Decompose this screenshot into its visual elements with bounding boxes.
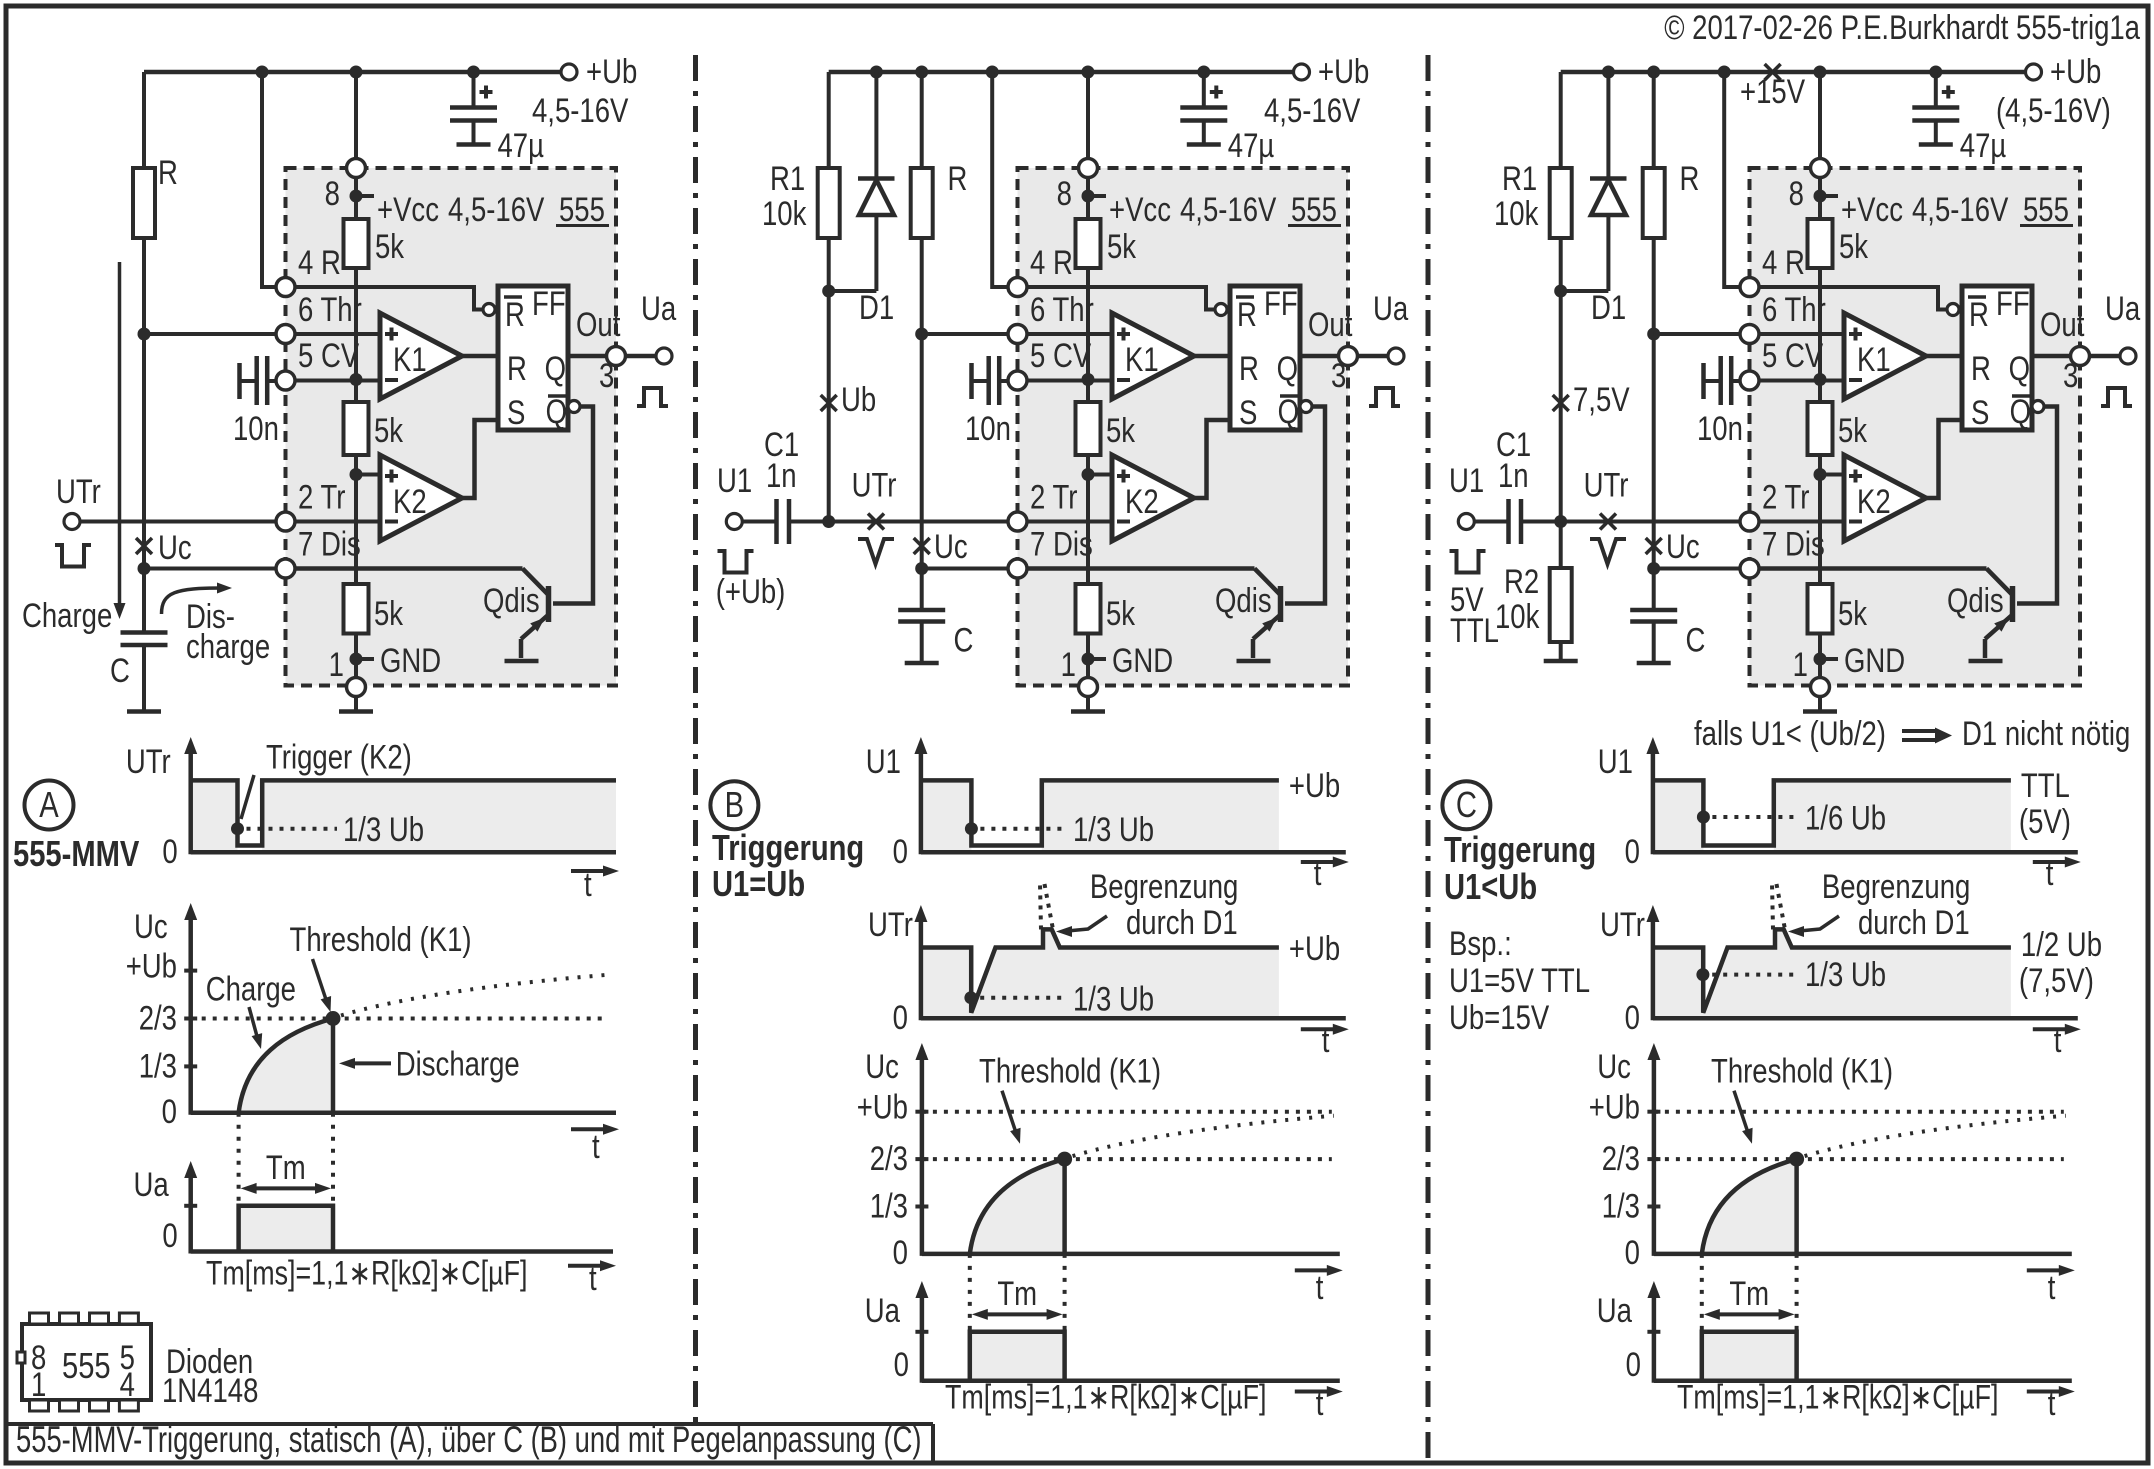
svg-text:GND: GND [1844, 641, 1905, 679]
svg-text:R: R [1680, 159, 1700, 197]
svg-text:8: 8 [1057, 174, 1072, 212]
svg-text:555: 555 [1291, 190, 1337, 228]
svg-text:Uc: Uc [134, 907, 168, 945]
svg-text:Ua: Ua [641, 289, 677, 327]
svg-text:5k: 5k [375, 227, 405, 265]
svg-text:S: S [507, 393, 525, 431]
svg-text:R1: R1 [1502, 159, 1537, 197]
svg-text:3: 3 [599, 356, 614, 394]
svg-text:1/6 Ub: 1/6 Ub [1805, 799, 1886, 837]
svg-text:Begrenzung: Begrenzung [1822, 867, 1970, 905]
svg-text:K2: K2 [393, 482, 427, 520]
svg-text:D1: D1 [859, 288, 894, 326]
svg-text:4,5-16V: 4,5-16V [1912, 190, 2009, 228]
svg-text:8: 8 [1789, 174, 1804, 212]
svg-text:UTr: UTr [126, 742, 171, 780]
svg-text:5 CV: 5 CV [298, 336, 360, 374]
svg-text:0: 0 [162, 1092, 177, 1130]
svg-text:t: t [2048, 1384, 2056, 1422]
svg-text:+Vcc: +Vcc [1841, 190, 1903, 228]
svg-text:1/3: 1/3 [139, 1047, 177, 1085]
svg-text:4,5-16V: 4,5-16V [448, 190, 545, 228]
svg-text:10n: 10n [233, 409, 279, 447]
svg-text:Threshold (K1): Threshold (K1) [1711, 1052, 1893, 1090]
svg-text:2 Tr: 2 Tr [1762, 478, 1809, 516]
svg-text:4 R: 4 R [1762, 243, 1805, 281]
svg-text:K1: K1 [1125, 340, 1159, 378]
svg-text:UTr: UTr [1600, 905, 1645, 943]
svg-text:U1<Ub: U1<Ub [1444, 866, 1537, 907]
svg-text:Threshold (K1): Threshold (K1) [979, 1052, 1161, 1090]
svg-text:R: R [507, 349, 527, 387]
svg-text:U1: U1 [717, 461, 752, 499]
svg-text:0: 0 [162, 1216, 177, 1254]
svg-text:1n: 1n [1498, 456, 1529, 494]
svg-text:10k: 10k [762, 194, 807, 232]
svg-text:Ua: Ua [865, 1291, 901, 1329]
svg-text:7,5V: 7,5V [1573, 380, 1630, 418]
svg-text:0: 0 [893, 1233, 908, 1271]
svg-text:K1: K1 [1857, 340, 1891, 378]
svg-text:1: 1 [1061, 645, 1076, 683]
svg-text:t: t [1314, 854, 1322, 892]
svg-text:47µ: 47µ [498, 126, 545, 164]
svg-text:t: t [2054, 1021, 2062, 1059]
svg-text:555-MMV-Triggerung, statisch (: 555-MMV-Triggerung, statisch (A), über C… [16, 1419, 921, 1460]
svg-text:R: R [158, 153, 178, 191]
svg-text:R: R [1239, 349, 1259, 387]
svg-text:6 Thr: 6 Thr [1030, 290, 1094, 328]
svg-text:7 Dis: 7 Dis [1762, 525, 1825, 563]
svg-text:(+Ub): (+Ub) [716, 572, 786, 610]
svg-text:1N4148: 1N4148 [162, 1371, 258, 1409]
svg-text:C: C [1686, 621, 1706, 659]
svg-text:+Vcc: +Vcc [1109, 190, 1171, 228]
svg-text:Begrenzung: Begrenzung [1090, 867, 1238, 905]
svg-text:3: 3 [2063, 356, 2078, 394]
svg-text:Out: Out [2040, 305, 2085, 343]
svg-text:0: 0 [162, 832, 177, 870]
svg-text:Trigger (K2): Trigger (K2) [266, 738, 412, 776]
svg-text:Tm[ms]=1,1∗R[kΩ]∗C[µF]: Tm[ms]=1,1∗R[kΩ]∗C[µF] [1677, 1378, 1998, 1416]
svg-text:© 2017-02-26 P.E.Burkhardt 555: © 2017-02-26 P.E.Burkhardt 555-trig1a [1664, 8, 2140, 46]
svg-text:8: 8 [325, 174, 340, 212]
svg-text:1/3 Ub: 1/3 Ub [343, 810, 424, 848]
svg-text:+Vcc: +Vcc [377, 190, 439, 228]
svg-text:R: R [1237, 295, 1257, 333]
svg-text:4,5-16V: 4,5-16V [1264, 91, 1361, 129]
svg-text:5k: 5k [374, 411, 404, 449]
svg-text:1n: 1n [766, 456, 797, 494]
svg-text:(5V): (5V) [2019, 802, 2071, 840]
svg-text:t: t [1316, 1384, 1324, 1422]
svg-text:FF: FF [1264, 284, 1298, 322]
svg-text:S: S [1239, 393, 1257, 431]
svg-text:3: 3 [1331, 356, 1346, 394]
svg-text:Threshold (K1): Threshold (K1) [290, 920, 472, 958]
svg-text:Out: Out [1308, 305, 1353, 343]
svg-text:2/3: 2/3 [1602, 1139, 1640, 1177]
svg-text:FF: FF [532, 284, 566, 322]
svg-text:555: 555 [559, 190, 605, 228]
svg-text:1: 1 [1793, 645, 1808, 683]
svg-text:Uc: Uc [158, 528, 192, 566]
svg-text:0: 0 [1625, 1233, 1640, 1271]
svg-text:U1=Ub: U1=Ub [712, 863, 805, 904]
svg-text:Uc: Uc [1597, 1047, 1631, 1085]
svg-text:D1 nicht nötig: D1 nicht nötig [1962, 714, 2130, 752]
svg-text:Ub: Ub [841, 380, 876, 418]
svg-text:1/3 Ub: 1/3 Ub [1073, 810, 1154, 848]
svg-text:UTr: UTr [852, 466, 897, 504]
svg-text:Tm: Tm [1729, 1274, 1769, 1312]
svg-text:1: 1 [329, 645, 344, 683]
svg-text:0: 0 [1625, 998, 1640, 1036]
svg-text:Tm: Tm [997, 1274, 1037, 1312]
svg-text:Triggerung: Triggerung [712, 827, 864, 868]
svg-text:1/3: 1/3 [1602, 1187, 1640, 1225]
svg-text:Ua: Ua [1373, 289, 1409, 327]
svg-text:Qdis: Qdis [1947, 581, 2004, 619]
svg-text:charge: charge [186, 627, 270, 665]
svg-text:t: t [1316, 1268, 1324, 1306]
svg-text:UTr: UTr [56, 472, 101, 510]
svg-text:0: 0 [1625, 832, 1640, 870]
svg-text:A: A [39, 784, 59, 825]
svg-text:Qdis: Qdis [1215, 581, 1272, 619]
svg-text:Q: Q [2009, 349, 2030, 387]
svg-text:t: t [589, 1259, 597, 1297]
svg-text:durch D1: durch D1 [1126, 903, 1238, 941]
svg-text:555: 555 [62, 1345, 111, 1386]
svg-text:GND: GND [380, 641, 441, 679]
svg-text:2/3: 2/3 [870, 1139, 908, 1177]
svg-text:C: C [954, 621, 974, 659]
svg-text:C: C [1456, 784, 1477, 825]
svg-text:47µ: 47µ [1960, 126, 2007, 164]
svg-text:K1: K1 [393, 340, 427, 378]
svg-text:Out: Out [576, 305, 621, 343]
svg-text:0: 0 [893, 832, 908, 870]
svg-text:7 Dis: 7 Dis [1030, 525, 1093, 563]
svg-text:+Ub: +Ub [2050, 52, 2101, 90]
svg-text:5k: 5k [1107, 227, 1137, 265]
svg-text:1/3 Ub: 1/3 Ub [1805, 955, 1886, 993]
svg-text:Q: Q [2010, 392, 2031, 430]
svg-text:Q: Q [1277, 349, 1298, 387]
svg-text:K2: K2 [1857, 482, 1891, 520]
svg-text:falls U1< (Ub/2): falls U1< (Ub/2) [1694, 714, 1886, 752]
svg-text:GND: GND [1112, 641, 1173, 679]
svg-text:FF: FF [1996, 284, 2030, 322]
svg-text:R: R [505, 295, 525, 333]
svg-text:Q: Q [1278, 392, 1299, 430]
svg-text:(7,5V): (7,5V) [2019, 961, 2094, 999]
svg-text:6 Thr: 6 Thr [1762, 290, 1826, 328]
svg-text:R: R [1971, 349, 1991, 387]
svg-text:+Ub: +Ub [126, 947, 177, 985]
svg-text:S: S [1971, 393, 1989, 431]
svg-text:2 Tr: 2 Tr [1030, 478, 1077, 516]
svg-text:Ua: Ua [2105, 289, 2141, 327]
svg-text:5k: 5k [1106, 411, 1136, 449]
svg-text:5k: 5k [1106, 594, 1136, 632]
svg-text:Triggerung: Triggerung [1444, 829, 1596, 870]
svg-text:0: 0 [894, 1345, 909, 1383]
svg-text:R2: R2 [1504, 562, 1539, 600]
svg-text:UTr: UTr [1584, 466, 1629, 504]
svg-text:Uc: Uc [865, 1047, 899, 1085]
svg-text:+Ub: +Ub [1589, 1088, 1640, 1126]
svg-text:Tm: Tm [266, 1148, 306, 1186]
svg-text:1/3: 1/3 [870, 1187, 908, 1225]
svg-text:5k: 5k [1838, 411, 1868, 449]
svg-text:t: t [584, 865, 592, 903]
svg-text:0: 0 [1626, 1345, 1641, 1383]
svg-text:TTL: TTL [2021, 766, 2070, 804]
svg-text:6 Thr: 6 Thr [298, 290, 362, 328]
svg-text:Q: Q [546, 392, 567, 430]
svg-text:+Ub: +Ub [586, 52, 637, 90]
svg-text:Ub=15V: Ub=15V [1449, 998, 1550, 1036]
svg-text:Ua: Ua [134, 1165, 170, 1203]
svg-text:2 Tr: 2 Tr [298, 478, 345, 516]
svg-text:B: B [725, 784, 744, 825]
svg-text:Charge: Charge [22, 596, 112, 634]
svg-text:4 R: 4 R [1030, 243, 1073, 281]
svg-text:Bsp.:: Bsp.: [1449, 924, 1512, 962]
svg-text:(4,5-16V): (4,5-16V) [1996, 91, 2111, 129]
svg-text:4 R: 4 R [298, 243, 341, 281]
svg-text:4,5-16V: 4,5-16V [532, 91, 629, 129]
svg-text:+Ub: +Ub [1289, 766, 1340, 804]
svg-text:10k: 10k [1495, 597, 1540, 635]
svg-text:4: 4 [120, 1365, 135, 1403]
svg-text:+Ub: +Ub [1289, 929, 1340, 967]
svg-text:7 Dis: 7 Dis [298, 525, 361, 563]
svg-text:0: 0 [893, 998, 908, 1036]
svg-text:durch D1: durch D1 [1858, 903, 1970, 941]
svg-text:5k: 5k [1838, 594, 1868, 632]
svg-text:5 CV: 5 CV [1762, 336, 1824, 374]
svg-text:U1=5V TTL: U1=5V TTL [1449, 961, 1590, 999]
svg-text:+Ub: +Ub [857, 1088, 908, 1126]
svg-text:5k: 5k [374, 594, 404, 632]
svg-text:Uc: Uc [934, 527, 968, 565]
svg-text:UTr: UTr [868, 905, 913, 943]
svg-text:R1: R1 [770, 159, 805, 197]
svg-text:1/3 Ub: 1/3 Ub [1073, 980, 1154, 1018]
svg-text:R: R [1969, 295, 1989, 333]
svg-text:t: t [592, 1127, 600, 1165]
svg-text:Tm[ms]=1,1∗R[kΩ]∗C[µF]: Tm[ms]=1,1∗R[kΩ]∗C[µF] [206, 1255, 527, 1293]
svg-text:U1: U1 [866, 742, 901, 780]
svg-text:2/3: 2/3 [139, 999, 177, 1037]
svg-text:10k: 10k [1494, 194, 1539, 232]
svg-text:U1: U1 [1598, 742, 1633, 780]
svg-text:Tm[ms]=1,1∗R[kΩ]∗C[µF]: Tm[ms]=1,1∗R[kΩ]∗C[µF] [945, 1378, 1266, 1416]
svg-text:10n: 10n [965, 409, 1011, 447]
svg-text:R: R [948, 159, 968, 197]
svg-text:5k: 5k [1839, 227, 1869, 265]
svg-text:47µ: 47µ [1228, 126, 1275, 164]
svg-text:+15V: +15V [1740, 72, 1805, 110]
svg-text:Charge: Charge [206, 970, 296, 1008]
svg-text:1/2 Ub: 1/2 Ub [2021, 925, 2102, 963]
svg-text:555: 555 [2023, 190, 2069, 228]
svg-text:Uc: Uc [1666, 527, 1700, 565]
svg-text:4,5-16V: 4,5-16V [1180, 190, 1277, 228]
svg-text:t: t [2048, 1268, 2056, 1306]
svg-text:Discharge: Discharge [396, 1045, 520, 1083]
svg-text:Q: Q [545, 349, 566, 387]
svg-text:C: C [110, 651, 130, 689]
svg-text:TTL: TTL [1450, 611, 1499, 649]
svg-text:Ua: Ua [1597, 1291, 1633, 1329]
svg-text:5 CV: 5 CV [1030, 336, 1092, 374]
svg-text:K2: K2 [1125, 482, 1159, 520]
svg-text:+Ub: +Ub [1318, 52, 1369, 90]
svg-text:Qdis: Qdis [483, 581, 540, 619]
svg-text:10n: 10n [1697, 409, 1743, 447]
svg-text:U1: U1 [1449, 461, 1484, 499]
svg-text:1: 1 [31, 1365, 46, 1403]
svg-text:555-MMV: 555-MMV [13, 833, 139, 874]
svg-text:t: t [2046, 854, 2054, 892]
svg-text:t: t [1322, 1021, 1330, 1059]
svg-text:D1: D1 [1591, 288, 1626, 326]
